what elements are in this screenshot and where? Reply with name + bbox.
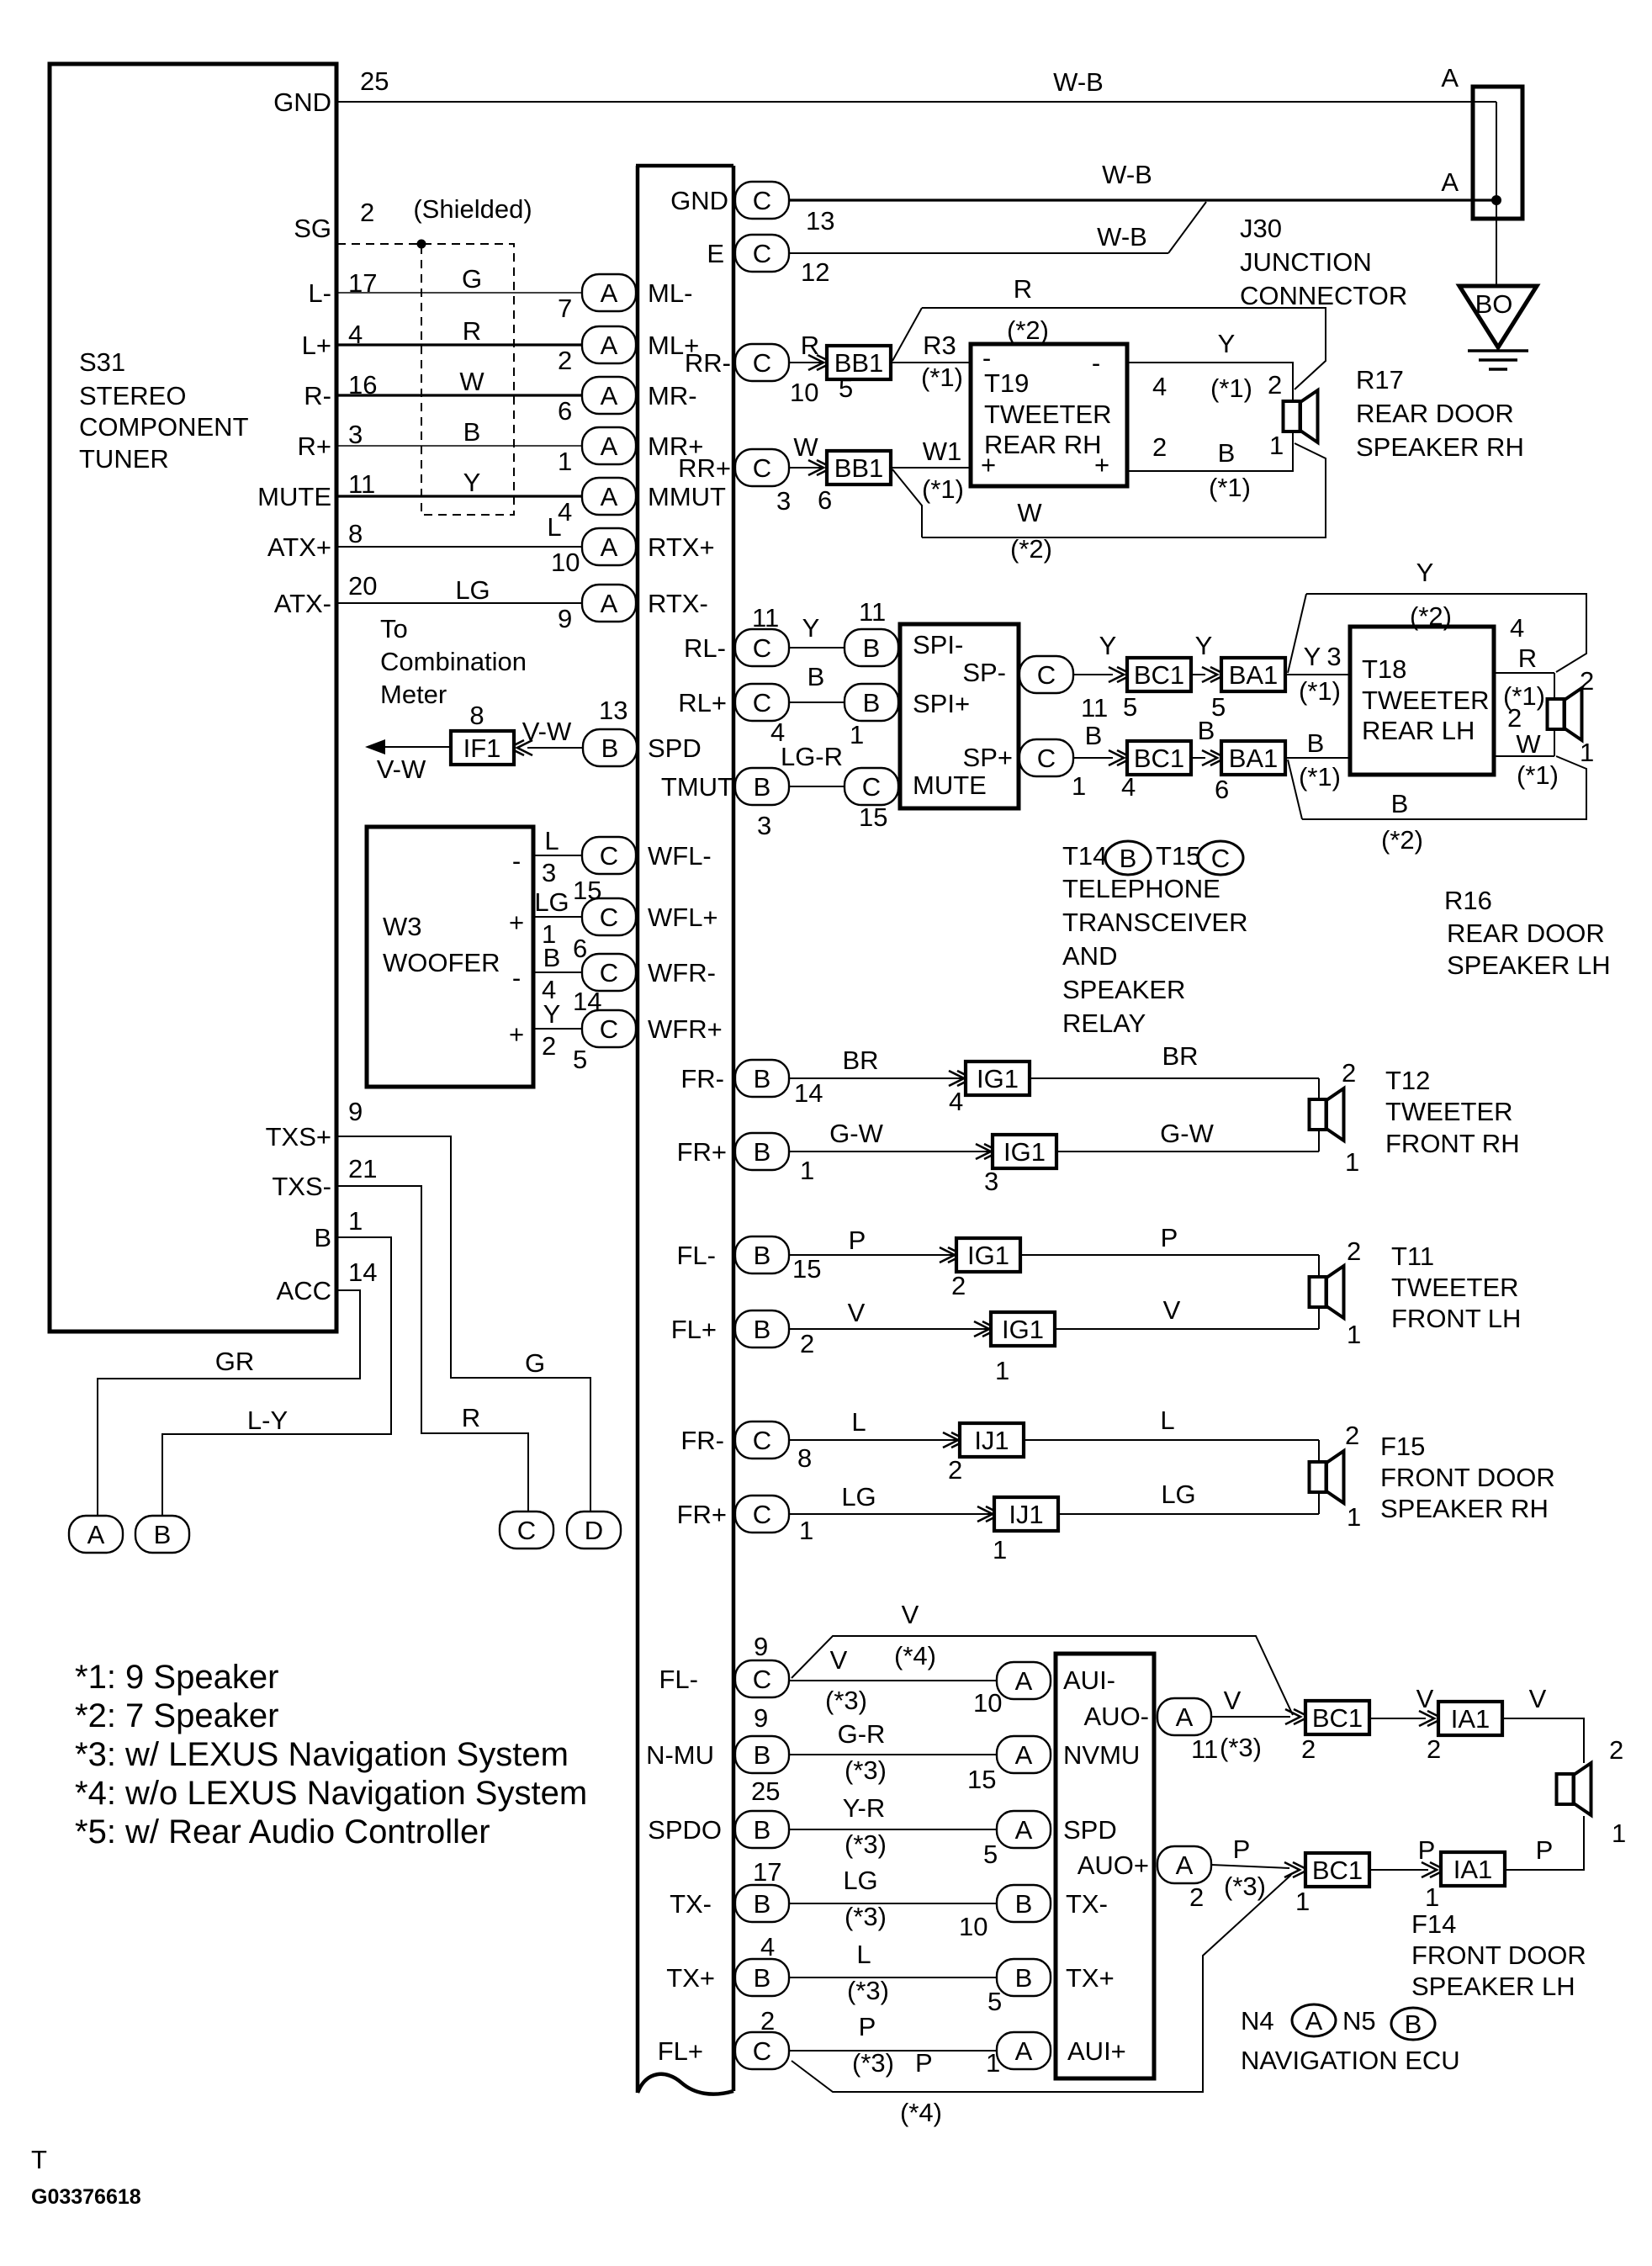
- arrowhead into IA1 (V): [1419, 1711, 1443, 1726]
- arrowhead into BC1 (Y): [1109, 667, 1132, 682]
- arrowhead into IJ1 (LG): [977, 1506, 1001, 1522]
- svg-text:SPEAKER RH: SPEAKER RH: [1356, 432, 1524, 462]
- svg-text:IG1: IG1: [1003, 1137, 1046, 1167]
- component S31 stereo component tuner box: [50, 64, 336, 1332]
- svg-text:25: 25: [360, 66, 389, 96]
- svg-text:3: 3: [776, 486, 791, 516]
- svg-text:(*3): (*3): [825, 1686, 867, 1715]
- wire B RL+ to relay: [789, 702, 845, 703]
- svg-text:10: 10: [790, 378, 818, 407]
- svg-text:(*3): (*3): [847, 1976, 889, 2005]
- svg-text:+: +: [509, 1019, 524, 1049]
- component W3 woofer box: [367, 827, 533, 1087]
- svg-text:7: 7: [558, 294, 572, 323]
- wire L TX+ to TX+: [789, 1977, 998, 1978]
- ground symbol BO: [1459, 286, 1537, 347]
- connector box BA1 (B net): [1221, 741, 1285, 775]
- oval B at row 935: [735, 768, 789, 805]
- svg-text:FR-: FR-: [680, 1064, 724, 1093]
- svg-text:2: 2: [360, 198, 374, 227]
- svg-text:12: 12: [801, 257, 829, 287]
- wire P IG1 to T11: [1020, 1254, 1319, 1256]
- svg-text:V: V: [1529, 1684, 1547, 1713]
- svg-text:TX-: TX-: [670, 1889, 712, 1919]
- svg-text:W: W: [1017, 498, 1042, 527]
- svg-text:ML-: ML-: [648, 278, 692, 308]
- svg-text:2: 2: [542, 1031, 556, 1061]
- wire LG woofer to WF oval: [533, 916, 582, 918]
- svg-text:1: 1: [348, 1206, 363, 1236]
- svg-text:IJ1: IJ1: [1009, 1500, 1043, 1529]
- svg-text:SPEAKER: SPEAKER: [1062, 975, 1185, 1004]
- svg-text:P: P: [1418, 1835, 1436, 1865]
- svg-text:G: G: [525, 1348, 545, 1378]
- arrowhead into IJ1 (L): [943, 1432, 966, 1448]
- svg-text:JUNCTION: JUNCTION: [1240, 247, 1372, 277]
- svg-text:+: +: [509, 908, 524, 937]
- svg-text:B: B: [754, 1241, 771, 1270]
- wire B BC1 to BA1: [1190, 757, 1205, 759]
- connector box IG1 (G-W): [993, 1135, 1056, 1168]
- arrowhead into BC1 (B): [1109, 750, 1132, 765]
- svg-text:8: 8: [348, 519, 363, 548]
- arrowhead into IG1 (P): [940, 1247, 963, 1263]
- svg-text:Y: Y: [1304, 642, 1321, 671]
- arrowhead into IF1: [509, 740, 532, 755]
- oval C at row 431: [735, 344, 789, 381]
- svg-text:6: 6: [573, 934, 587, 963]
- wire Y SP- to BC1: [1073, 674, 1113, 675]
- arrowhead into BB1 (W): [808, 460, 832, 475]
- connector box BB1 (W net): [827, 451, 891, 484]
- svg-text:15: 15: [967, 1765, 996, 1794]
- svg-text:V: V: [902, 1600, 919, 1629]
- svg-text:G: G: [462, 264, 482, 294]
- svg-text:R: R: [463, 316, 481, 346]
- wire L FR- to IJ1: [789, 1439, 956, 1441]
- oval C woofer row (pin 6): [582, 898, 636, 935]
- svg-text:FL+: FL+: [658, 2036, 703, 2066]
- svg-text:C: C: [753, 2036, 771, 2066]
- svg-text:2: 2: [1347, 1236, 1361, 1266]
- oval B (N5): [1391, 2008, 1435, 2040]
- svg-text:BA1: BA1: [1229, 744, 1279, 773]
- oval A (pin 9): [582, 585, 636, 622]
- oval B (SPD pin 13): [583, 729, 637, 766]
- svg-text:T18: T18: [1362, 654, 1406, 684]
- wire Y3 BA1 to T18: [1284, 674, 1350, 675]
- svg-text:9: 9: [348, 1097, 363, 1126]
- arrowhead into BB1 (R): [808, 355, 832, 370]
- svg-text:B: B: [754, 772, 771, 802]
- svg-text:Y-R: Y-R: [843, 1793, 886, 1823]
- svg-text:B: B: [754, 1315, 771, 1344]
- svg-text:*4: w/o LEXUS Navigation Syste: *4: w/o LEXUS Navigation System: [75, 1775, 587, 1812]
- oval C (relay SP+ pin 1): [1019, 739, 1073, 776]
- oval B at row 1492: [735, 1236, 789, 1273]
- svg-text:2: 2: [800, 1329, 814, 1358]
- wire Y BC1 to BA1: [1190, 674, 1205, 675]
- wire P FL- to IG1: [789, 1254, 953, 1256]
- svg-text:Y: Y: [463, 468, 481, 497]
- wire V-W SPD to IF1: [527, 747, 583, 749]
- oval A (nav SPD pin 5): [997, 1811, 1051, 1848]
- svg-text:T12: T12: [1385, 1066, 1430, 1095]
- wire V FL+ to IG1: [789, 1328, 987, 1330]
- svg-text:SPD: SPD: [648, 733, 702, 763]
- svg-text:TXS+: TXS+: [266, 1122, 331, 1152]
- oval C woofer row (pin 5): [582, 1010, 636, 1047]
- wire R RR- to BB1: [789, 362, 822, 363]
- svg-text:A: A: [601, 278, 618, 308]
- wire L- (G): [336, 292, 582, 294]
- svg-text:2: 2: [948, 1455, 962, 1485]
- svg-text:RL+: RL+: [678, 688, 727, 717]
- connector box BA1 (Y net): [1221, 658, 1285, 691]
- svg-text:Meter: Meter: [380, 680, 447, 709]
- wire T11 speaker terminal: [1318, 1255, 1320, 1329]
- svg-text:P: P: [1233, 1835, 1251, 1864]
- oval A (pin 7): [582, 274, 636, 311]
- svg-text:*5: w/ Rear Audio Controller: *5: w/ Rear Audio Controller: [75, 1813, 490, 1850]
- junction connector inner wire: [1496, 102, 1497, 200]
- svg-text:REAR RH: REAR RH: [984, 430, 1102, 459]
- svg-text:(*3): (*3): [845, 1755, 887, 1785]
- oval C (bottom): [500, 1512, 553, 1549]
- svg-text:B: B: [1015, 1889, 1033, 1919]
- svg-text:(*4): (*4): [900, 2098, 942, 2127]
- svg-text:(*3): (*3): [852, 2048, 894, 2078]
- svg-text:+: +: [981, 450, 996, 479]
- svg-text:J30: J30: [1240, 214, 1282, 243]
- svg-text:LG: LG: [455, 575, 490, 605]
- svg-text:C: C: [753, 1665, 771, 1694]
- wire Y (*2) bypass to R16 pin 2: [1306, 594, 1586, 672]
- svg-text:13: 13: [806, 206, 834, 236]
- wire P AUO+ to BC1: [1211, 1865, 1289, 1868]
- svg-text:4: 4: [760, 1932, 775, 1962]
- svg-text:ATX+: ATX+: [267, 532, 331, 562]
- svg-text:(*3): (*3): [845, 1902, 887, 1931]
- wire L+ (R): [336, 343, 582, 346]
- svg-text:R+: R+: [298, 431, 332, 461]
- svg-text:-: -: [512, 963, 521, 993]
- wire B BA1 to T18: [1284, 757, 1350, 759]
- svg-text:A: A: [601, 482, 618, 511]
- svg-text:Y: Y: [543, 999, 561, 1029]
- svg-text:T15: T15: [1156, 841, 1200, 871]
- oval B (relay SPI- pin 11): [845, 629, 898, 666]
- svg-text:REAR LH: REAR LH: [1362, 716, 1475, 745]
- oval A (nav AUI- pin 10): [997, 1662, 1051, 1699]
- strip bottom wavy break line: [638, 2074, 733, 2094]
- svg-text:20: 20: [348, 571, 377, 601]
- wire R TXS- to oval C: [336, 1186, 528, 1512]
- svg-text:2: 2: [1301, 1734, 1316, 1764]
- svg-text:V: V: [1163, 1295, 1181, 1325]
- connector box IF1: [451, 731, 514, 765]
- svg-text:N4: N4: [1241, 2006, 1274, 2036]
- wire B (*2) bypass to R16 pin 1: [1302, 756, 1586, 819]
- svg-text:1: 1: [1072, 771, 1086, 801]
- svg-text:BA1: BA1: [1229, 660, 1279, 690]
- svg-text:B: B: [863, 633, 881, 663]
- svg-text:Y: Y: [1218, 329, 1236, 358]
- svg-text:1: 1: [1425, 1882, 1439, 1912]
- svg-text:B: B: [754, 1064, 771, 1093]
- connector box IG1 (BR): [966, 1062, 1030, 1095]
- svg-text:P: P: [849, 1226, 866, 1255]
- svg-text:4: 4: [1510, 613, 1524, 643]
- svg-text:(*2): (*2): [1010, 534, 1052, 564]
- arrowhead into IG1 (V): [974, 1321, 998, 1337]
- svg-text:RELAY: RELAY: [1062, 1009, 1146, 1038]
- svg-text:AUO+: AUO+: [1078, 1850, 1149, 1880]
- svg-text:2: 2: [1609, 1735, 1623, 1765]
- svg-text:C: C: [600, 1014, 618, 1044]
- arrowhead into BA1 (B): [1202, 750, 1226, 765]
- wire G-W IG1 to T12: [1056, 1151, 1319, 1152]
- svg-text:8: 8: [797, 1443, 812, 1473]
- svg-text:A: A: [1441, 167, 1459, 197]
- svg-text:SP+: SP+: [963, 743, 1013, 772]
- svg-text:L: L: [851, 1407, 866, 1437]
- wire P BC1 to IA1: [1370, 1869, 1428, 1871]
- svg-text:B: B: [863, 688, 881, 717]
- svg-text:B: B: [754, 1963, 771, 1993]
- oval A (nav AUO+ pin 2): [1157, 1846, 1211, 1883]
- oval C at row 556: [735, 449, 789, 486]
- svg-text:(*2): (*2): [1007, 315, 1049, 345]
- oval B at row 2175: [735, 1811, 789, 1848]
- svg-text:R3: R3: [923, 331, 956, 360]
- svg-text:TWEETER: TWEETER: [1385, 1097, 1513, 1126]
- svg-text:TMUT: TMUT: [661, 772, 733, 802]
- oval B at row 2263: [735, 1885, 789, 1922]
- junction node dot: [1491, 195, 1501, 205]
- oval B (nav TX+ pin 5): [997, 1959, 1051, 1996]
- wire diagonal BB1 to R *2 bypass: [892, 308, 922, 361]
- wire W-B E pin12: [789, 252, 1168, 254]
- svg-text:W: W: [793, 432, 818, 462]
- wire LG FR+ to IJ1: [789, 1513, 991, 1515]
- oval D (bottom): [567, 1512, 621, 1549]
- svg-text:9: 9: [754, 1703, 768, 1733]
- oval A (N4): [1292, 2004, 1336, 2036]
- svg-text:RR-: RR-: [685, 348, 731, 378]
- svg-text:A: A: [1015, 1815, 1033, 1845]
- svg-text:D: D: [585, 1516, 603, 1545]
- svg-text:8: 8: [469, 701, 484, 730]
- svg-text:C: C: [1037, 744, 1056, 773]
- svg-text:SPEAKER RH: SPEAKER RH: [1380, 1494, 1549, 1523]
- svg-text:B: B: [1218, 438, 1236, 468]
- svg-text:P: P: [915, 2048, 933, 2078]
- svg-text:2: 2: [951, 1271, 966, 1300]
- wire V (*4) bypass FL- to BC1: [792, 1636, 1293, 1715]
- svg-text:T19: T19: [984, 368, 1029, 398]
- svg-text:A: A: [601, 532, 618, 562]
- svg-text:V: V: [848, 1298, 866, 1327]
- wire LG IJ1 to F15: [1058, 1513, 1319, 1515]
- svg-text:WOOFER: WOOFER: [383, 948, 500, 977]
- svg-text:+: +: [1094, 450, 1109, 479]
- svg-text:FRONT DOOR: FRONT DOOR: [1411, 1940, 1586, 1970]
- svg-text:6: 6: [558, 396, 572, 426]
- wire Y RL- to relay: [789, 647, 845, 649]
- svg-text:5: 5: [1123, 692, 1137, 722]
- svg-text:2: 2: [1152, 432, 1167, 462]
- svg-text:CONNECTOR: CONNECTOR: [1240, 281, 1407, 310]
- svg-text:L+: L+: [302, 331, 331, 360]
- svg-text:W: W: [459, 367, 484, 396]
- wire BR IG1 to T12: [1030, 1077, 1319, 1079]
- oval B at row 2086: [735, 1736, 789, 1773]
- svg-text:Combination: Combination: [380, 647, 527, 676]
- svg-text:B: B: [601, 733, 619, 763]
- svg-text:B: B: [754, 1137, 771, 1167]
- svg-text:F14: F14: [1411, 1909, 1456, 1939]
- svg-text:LG: LG: [1161, 1480, 1195, 1509]
- svg-text:STEREO: STEREO: [79, 381, 186, 410]
- oval B (relay SPI+ pin 1): [845, 684, 898, 721]
- svg-text:AUI-: AUI-: [1063, 1665, 1115, 1695]
- svg-text:*3: w/ LEXUS Navigation System: *3: w/ LEXUS Navigation System: [75, 1736, 569, 1773]
- svg-text:T11: T11: [1391, 1242, 1434, 1271]
- svg-text:Y: Y: [802, 613, 820, 643]
- arrowhead into BA1 (Y): [1202, 667, 1226, 682]
- svg-text:(*1): (*1): [1209, 473, 1251, 502]
- svg-text:ACC: ACC: [277, 1276, 331, 1305]
- oval A (pin 1): [582, 427, 636, 464]
- oval C (relay SP- pin 11): [1019, 656, 1073, 693]
- svg-text:B: B: [807, 662, 825, 691]
- wire W (*2) bypass to speaker pin 1: [922, 443, 1326, 537]
- svg-text:FL-: FL-: [677, 1241, 717, 1270]
- svg-text:NVMU: NVMU: [1063, 1740, 1140, 1770]
- svg-text:1: 1: [850, 720, 864, 749]
- svg-text:A: A: [1015, 2036, 1033, 2066]
- oval C at row 770: [735, 629, 789, 666]
- svg-text:TX+: TX+: [666, 1963, 715, 1993]
- svg-text:RL-: RL-: [684, 633, 726, 663]
- svg-text:REAR DOOR: REAR DOOR: [1356, 399, 1514, 428]
- svg-text:TRANSCEIVER: TRANSCEIVER: [1062, 908, 1247, 937]
- oval C at row 238: [735, 182, 789, 219]
- svg-text:C: C: [753, 239, 771, 268]
- speaker icon R17: [1284, 390, 1318, 442]
- wire W-B GND pin13 to junction dot: [789, 199, 1496, 201]
- wire P (*4) bypass FL+ to BC1: [792, 1875, 1291, 2092]
- svg-text:SPI-: SPI-: [913, 630, 963, 659]
- wire P IA1 to F14 pin 1: [1505, 1816, 1584, 1870]
- svg-text:IA1: IA1: [1453, 1855, 1493, 1884]
- oval B at row 1369: [735, 1133, 789, 1170]
- svg-text:SPEAKER LH: SPEAKER LH: [1447, 950, 1611, 980]
- svg-text:B: B: [314, 1223, 331, 1252]
- svg-text:(*1): (*1): [1517, 760, 1559, 790]
- svg-text:A: A: [1015, 1740, 1033, 1770]
- svg-text:4: 4: [1121, 772, 1136, 802]
- svg-text:GR: GR: [215, 1347, 255, 1376]
- svg-text:BC1: BC1: [1134, 660, 1184, 690]
- svg-text:TWEETER: TWEETER: [1362, 686, 1490, 715]
- svg-text:5: 5: [839, 373, 853, 403]
- svg-text:W1: W1: [923, 437, 962, 466]
- svg-text:SP-: SP-: [962, 658, 1006, 687]
- svg-text:C: C: [600, 903, 618, 932]
- svg-text:A: A: [1305, 2006, 1323, 2036]
- svg-text:SPD: SPD: [1063, 1815, 1117, 1845]
- wire V BC1 to IA1: [1369, 1718, 1426, 1719]
- wire G TXS+ to oval D: [336, 1136, 590, 1512]
- svg-text:MUTE: MUTE: [913, 770, 987, 800]
- svg-text:C: C: [753, 1426, 771, 1455]
- svg-text:6: 6: [1215, 775, 1229, 804]
- svg-text:L-Y: L-Y: [247, 1406, 288, 1435]
- oval C (T15): [1198, 841, 1243, 875]
- svg-text:2: 2: [1268, 370, 1282, 400]
- connector box IA1 (P net): [1441, 1852, 1505, 1886]
- oval A (pin 6): [582, 377, 636, 414]
- svg-text:FRONT LH: FRONT LH: [1391, 1304, 1521, 1333]
- wire B woofer to WF oval: [533, 972, 582, 973]
- oval A (nav AUO- pin 11): [1157, 1698, 1211, 1735]
- svg-text:1: 1: [995, 1356, 1009, 1385]
- svg-text:13: 13: [599, 696, 627, 725]
- svg-text:5: 5: [573, 1045, 587, 1074]
- svg-text:B: B: [543, 943, 561, 972]
- oval B at row 1580: [735, 1310, 789, 1347]
- speaker icon F15: [1310, 1451, 1344, 1503]
- wire V AUO- to BC1: [1211, 1716, 1290, 1718]
- oval C (relay MUTE pin 15): [845, 768, 898, 805]
- svg-text:9: 9: [558, 604, 572, 633]
- svg-text:C: C: [753, 186, 771, 215]
- svg-text:C: C: [753, 348, 771, 378]
- svg-text:11: 11: [1191, 1734, 1218, 1764]
- svg-text:C: C: [753, 453, 771, 483]
- svg-text:Y: Y: [1416, 558, 1434, 587]
- wire G-W FR+ to IG1: [789, 1151, 989, 1152]
- svg-text:R: R: [1014, 274, 1032, 304]
- svg-text:1: 1: [800, 1156, 814, 1185]
- svg-text:2: 2: [1507, 703, 1522, 733]
- speaker icon T11: [1310, 1266, 1344, 1318]
- svg-text:G-R: G-R: [838, 1719, 886, 1749]
- svg-text:C: C: [1211, 844, 1230, 873]
- wire V IA1 to F14 pin 2: [1502, 1718, 1584, 1763]
- svg-text:1: 1: [1269, 431, 1284, 460]
- svg-text:MUTE: MUTE: [257, 482, 331, 511]
- svg-text:FRONT DOOR: FRONT DOOR: [1380, 1463, 1555, 1492]
- wire R3 BB1 to T19: [891, 362, 971, 363]
- oval C woofer row (pin 14): [582, 954, 636, 991]
- svg-text:(Shielded): (Shielded): [413, 194, 532, 224]
- svg-text:W-B: W-B: [1097, 222, 1147, 251]
- svg-text:*1: 9 Speaker: *1: 9 Speaker: [75, 1659, 278, 1696]
- wire W-B diagonal merge: [1168, 202, 1206, 253]
- wire diagonal BB1 to W *2 bypass: [892, 469, 922, 537]
- oval A (bottom): [69, 1516, 123, 1553]
- svg-text:L: L: [1160, 1406, 1174, 1435]
- svg-text:C: C: [600, 958, 618, 987]
- oval C at row 2438: [735, 2032, 789, 2069]
- svg-text:V: V: [1224, 1686, 1242, 1715]
- svg-text:25: 25: [751, 1776, 780, 1806]
- svg-text:21: 21: [348, 1154, 377, 1183]
- svg-text:C: C: [753, 1500, 771, 1529]
